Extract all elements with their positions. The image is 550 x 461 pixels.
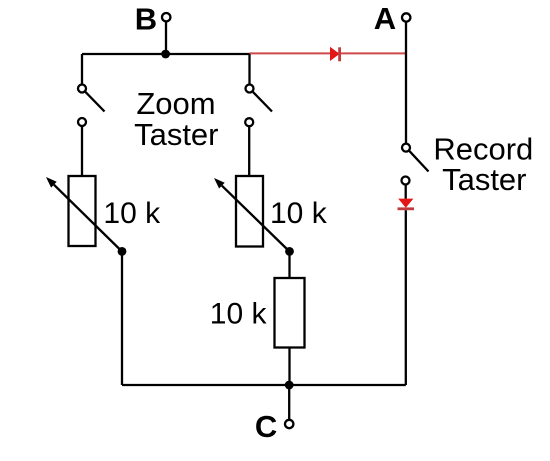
diode D2 (red, pointing down) — [398, 199, 415, 211]
wire R1 to bottom node — [288, 348, 290, 386]
potentiometer P2 body 10 k — [236, 176, 263, 247]
wire left branch vertical — [81, 54, 83, 84]
wire C drop — [288, 385, 290, 420]
svg-text:Taster: Taster — [134, 117, 218, 152]
switch S3 (Record Taster) — [402, 144, 429, 185]
wire S3 to D2 — [405, 185, 407, 199]
wire S2 to P2 — [248, 126, 250, 176]
junction dot middle wiper node — [285, 247, 294, 256]
svg-text:10 k: 10 k — [103, 197, 161, 230]
potentiometer P1 wiper arrow — [46, 177, 122, 252]
svg-text:10 k: 10 k — [270, 197, 328, 230]
label Zoom Taster — [134, 86, 218, 152]
wire middle branch vertical — [248, 54, 250, 84]
terminal B — [162, 13, 170, 21]
wire A drop — [405, 22, 407, 144]
wire D2 to bottom rail — [405, 210, 407, 385]
wire red top horizontal — [250, 52, 406, 54]
svg-text:10 k: 10 k — [210, 297, 268, 330]
potentiometer P2 wiper arrow — [214, 178, 290, 252]
wire B drop — [165, 21, 167, 54]
wire left bottom vertical — [121, 251, 123, 385]
terminal A — [402, 13, 410, 21]
wire bottom rail — [122, 384, 406, 386]
svg-text:Zoom: Zoom — [136, 86, 215, 121]
switch S1 (left Zoom Taster) — [78, 85, 105, 127]
svg-text:C: C — [255, 409, 277, 444]
svg-text:A: A — [374, 1, 396, 36]
switch S2 (right Zoom Taster) — [245, 85, 272, 127]
wire P2 node to R1 — [288, 251, 290, 278]
wire S1 to P1 — [81, 126, 83, 176]
label Record Taster — [433, 131, 533, 197]
junction dot left wiper node — [118, 247, 127, 256]
resistor R1 body — [275, 278, 305, 348]
svg-text:B: B — [135, 2, 157, 37]
diode D1 (red, pointing right) — [330, 47, 341, 62]
svg-text:Taster: Taster — [442, 162, 526, 197]
junction dot C node — [285, 381, 294, 390]
terminal C — [285, 420, 293, 428]
potentiometer P1 body 10 k — [69, 176, 96, 246]
junction dot at B branch — [161, 50, 170, 59]
wire top horizontal (black) — [82, 53, 250, 55]
